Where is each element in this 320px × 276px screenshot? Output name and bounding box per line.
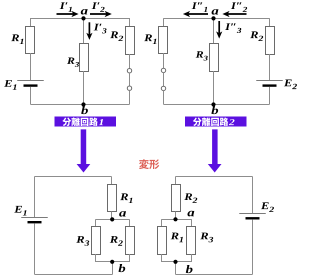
wire: circuit3 R3 to node b rail	[95, 254, 97, 262]
label node a (circuit4)	[187, 211, 194, 217]
label node b (circuit4)	[186, 265, 193, 273]
wire: circuit1 between open terminals	[129, 73, 131, 87]
big transform arrow left (purple)	[77, 129, 91, 172]
wire: circuit2 left branch upper	[163, 18, 165, 26]
node b junction dot (circuit1)	[81, 102, 85, 106]
current arrow I'2 (rightward)	[90, 13, 107, 15]
label current I"1	[192, 2, 197, 9]
wire: circuit1 top rail through node a	[31, 18, 130, 20]
label current I"2	[231, 2, 236, 9]
label R2 (circuit3)	[110, 236, 118, 243]
resistor R3 (circuit3)	[92, 227, 101, 255]
resistor R1 (circuit3)	[108, 185, 117, 212]
big transform arrow right (purple)	[208, 129, 222, 172]
wire: circuit3 node b to bottom rail	[112, 262, 114, 275]
wire: circuit4 a to R3	[191, 219, 193, 226]
wire: circuit1 left branch upper	[30, 18, 32, 27]
wire: circuit2 R1 to open terminal	[163, 53, 165, 68]
label node a (circuit1)	[81, 9, 88, 15]
resistor R1 (circuit4)	[158, 227, 167, 255]
resistor R2 (circuit4)	[172, 185, 181, 212]
label henkei (transform) red	[139, 159, 149, 169]
resistor R1 (circuit2)	[159, 27, 168, 54]
label current I'1	[60, 2, 65, 9]
wire: circuit1 bottom rail through node b	[31, 104, 130, 106]
wire: circuit2 E2 to bottom rail	[269, 87, 271, 104]
wire: circuit3 top to R1	[111, 177, 113, 185]
label current I"3	[225, 23, 230, 30]
wire: circuit1 right branch upper	[129, 18, 131, 27]
wire: circuit3 a to R3	[95, 219, 97, 226]
wire: circuit4 R3 to node b rail	[191, 254, 193, 262]
resistor R2 (circuit3)	[126, 227, 135, 255]
wire: circuit4 right branch to E2	[252, 177, 254, 214]
caption box: separated circuit 1 (bunri kairo 1)	[55, 117, 117, 127]
battery E1 (circuit1)	[17, 80, 44, 82]
label current I'2	[92, 2, 97, 9]
node a junction dot (circuit4)	[173, 217, 177, 221]
wire: circuit1 terminal to bottom rail	[129, 90, 131, 104]
current arrow I"2 (leftward)	[227, 13, 247, 15]
wire: circuit3 R2 to node b rail	[129, 254, 131, 262]
node a junction dot (circuit2)	[211, 16, 215, 20]
label E1 (circuit3)	[14, 206, 22, 213]
label node b (circuit3)	[118, 264, 125, 272]
label node b (circuit1)	[81, 106, 88, 114]
wire: circuit2 node a to R3	[213, 18, 215, 43]
wire: circuit4 node b to bottom rail	[175, 262, 177, 275]
resistor R3 (circuit2)	[210, 44, 219, 72]
wire: circuit1 R3 to node b	[83, 71, 85, 104]
label E2 (circuit4)	[261, 202, 269, 209]
wire: circuit4 top rail	[176, 176, 253, 178]
open terminal upper - removed E1 (circuit2)	[161, 68, 165, 72]
battery E1 (circuit3)	[21, 217, 48, 219]
label node b (circuit2)	[211, 106, 218, 114]
wire: circuit2 R2 to E2	[269, 54, 271, 81]
battery E2 (circuit2)	[256, 80, 283, 82]
open terminal upper - removed E2 (circuit1)	[127, 69, 131, 73]
label R3 (circuit4)	[200, 233, 208, 240]
wire: circuit4 R1 to node b rail	[161, 254, 163, 262]
node b junction dot (circuit2)	[211, 102, 215, 106]
wire: circuit2 bottom rail through node b	[164, 104, 270, 106]
label E2 (circuit2)	[284, 80, 292, 87]
wire: circuit4 node b rail	[162, 261, 192, 263]
label R3 (circuit2)	[196, 51, 203, 57]
wire: circuit2 R3 to node b	[213, 71, 215, 104]
wire: circuit1 node a to R3	[83, 18, 85, 44]
resistor R1 (circuit1)	[26, 27, 35, 54]
label R3 (circuit1)	[67, 58, 74, 64]
label R1 (circuit3)	[120, 193, 128, 200]
resistor R2 (circuit1)	[126, 27, 135, 55]
current arrow I"3 (downward)	[218, 21, 220, 34]
wire: circuit2 between open terminals	[163, 72, 165, 86]
label node a (circuit3)	[119, 211, 126, 217]
wire: circuit1 R1 to E1	[30, 53, 32, 81]
label E1 (circuit1)	[4, 80, 12, 87]
label current I'3	[94, 24, 99, 31]
wire: circuit3 node b rail	[96, 261, 130, 263]
node b junction dot (circuit3)	[110, 260, 114, 264]
node b junction dot (circuit4)	[173, 260, 177, 264]
wire: circuit3 bottom rail	[35, 274, 113, 276]
resistor R3 (circuit1)	[80, 44, 89, 72]
label R3 (circuit3)	[76, 236, 84, 243]
open terminal lower - removed E2 (circuit1)	[127, 86, 131, 90]
battery E2 (circuit4)	[239, 213, 266, 215]
resistor R3 (circuit4)	[187, 227, 196, 255]
wire: circuit2 terminal to bottom rail	[163, 90, 165, 104]
node a junction dot (circuit1)	[81, 16, 85, 20]
wire: circuit2 top rail through node a	[164, 18, 270, 20]
label R2 (circuit4)	[184, 193, 192, 200]
wire: circuit4 node a rail	[162, 219, 192, 221]
wire: circuit3 E1 to bottom rail	[34, 224, 36, 275]
current arrow I"1 (leftward)	[188, 13, 209, 15]
wire: circuit3 a to R2	[129, 219, 131, 226]
open terminal lower - removed E1 (circuit2)	[161, 86, 165, 90]
label R1 (circuit1)	[11, 34, 19, 41]
wire: circuit4 E2 to bottom rail	[252, 220, 254, 275]
wire: circuit1 E1 to bottom rail	[30, 87, 32, 104]
wire: circuit3 R1 to node a	[111, 212, 113, 220]
resistor R2 (circuit2)	[266, 27, 275, 55]
label node a (circuit2)	[212, 9, 219, 15]
current arrow I'3 (downward)	[88, 22, 90, 35]
current arrow I'1 (rightward)	[57, 13, 75, 15]
wire: circuit3 top rail	[35, 176, 112, 178]
wire: circuit4 R2 to node a	[175, 212, 177, 220]
wire: circuit4 bottom rail	[176, 274, 253, 276]
label R1 (circuit2)	[144, 34, 152, 41]
node a junction dot (circuit3)	[110, 217, 114, 221]
wire: circuit4 top to R2	[175, 177, 177, 185]
wire: circuit1 R2 to open terminal	[129, 54, 131, 69]
wire: circuit4 a to R1	[161, 219, 163, 226]
label R2 (circuit2)	[250, 31, 258, 38]
caption box: separated circuit 2 (bunri kairo 2)	[185, 117, 247, 127]
label R2 (circuit1)	[110, 31, 118, 38]
label R1 (circuit4)	[171, 233, 179, 240]
wire: circuit3 left branch to E1	[34, 177, 36, 218]
wire: circuit2 right branch upper	[269, 18, 271, 26]
wire: circuit3 node a rail	[96, 219, 130, 221]
